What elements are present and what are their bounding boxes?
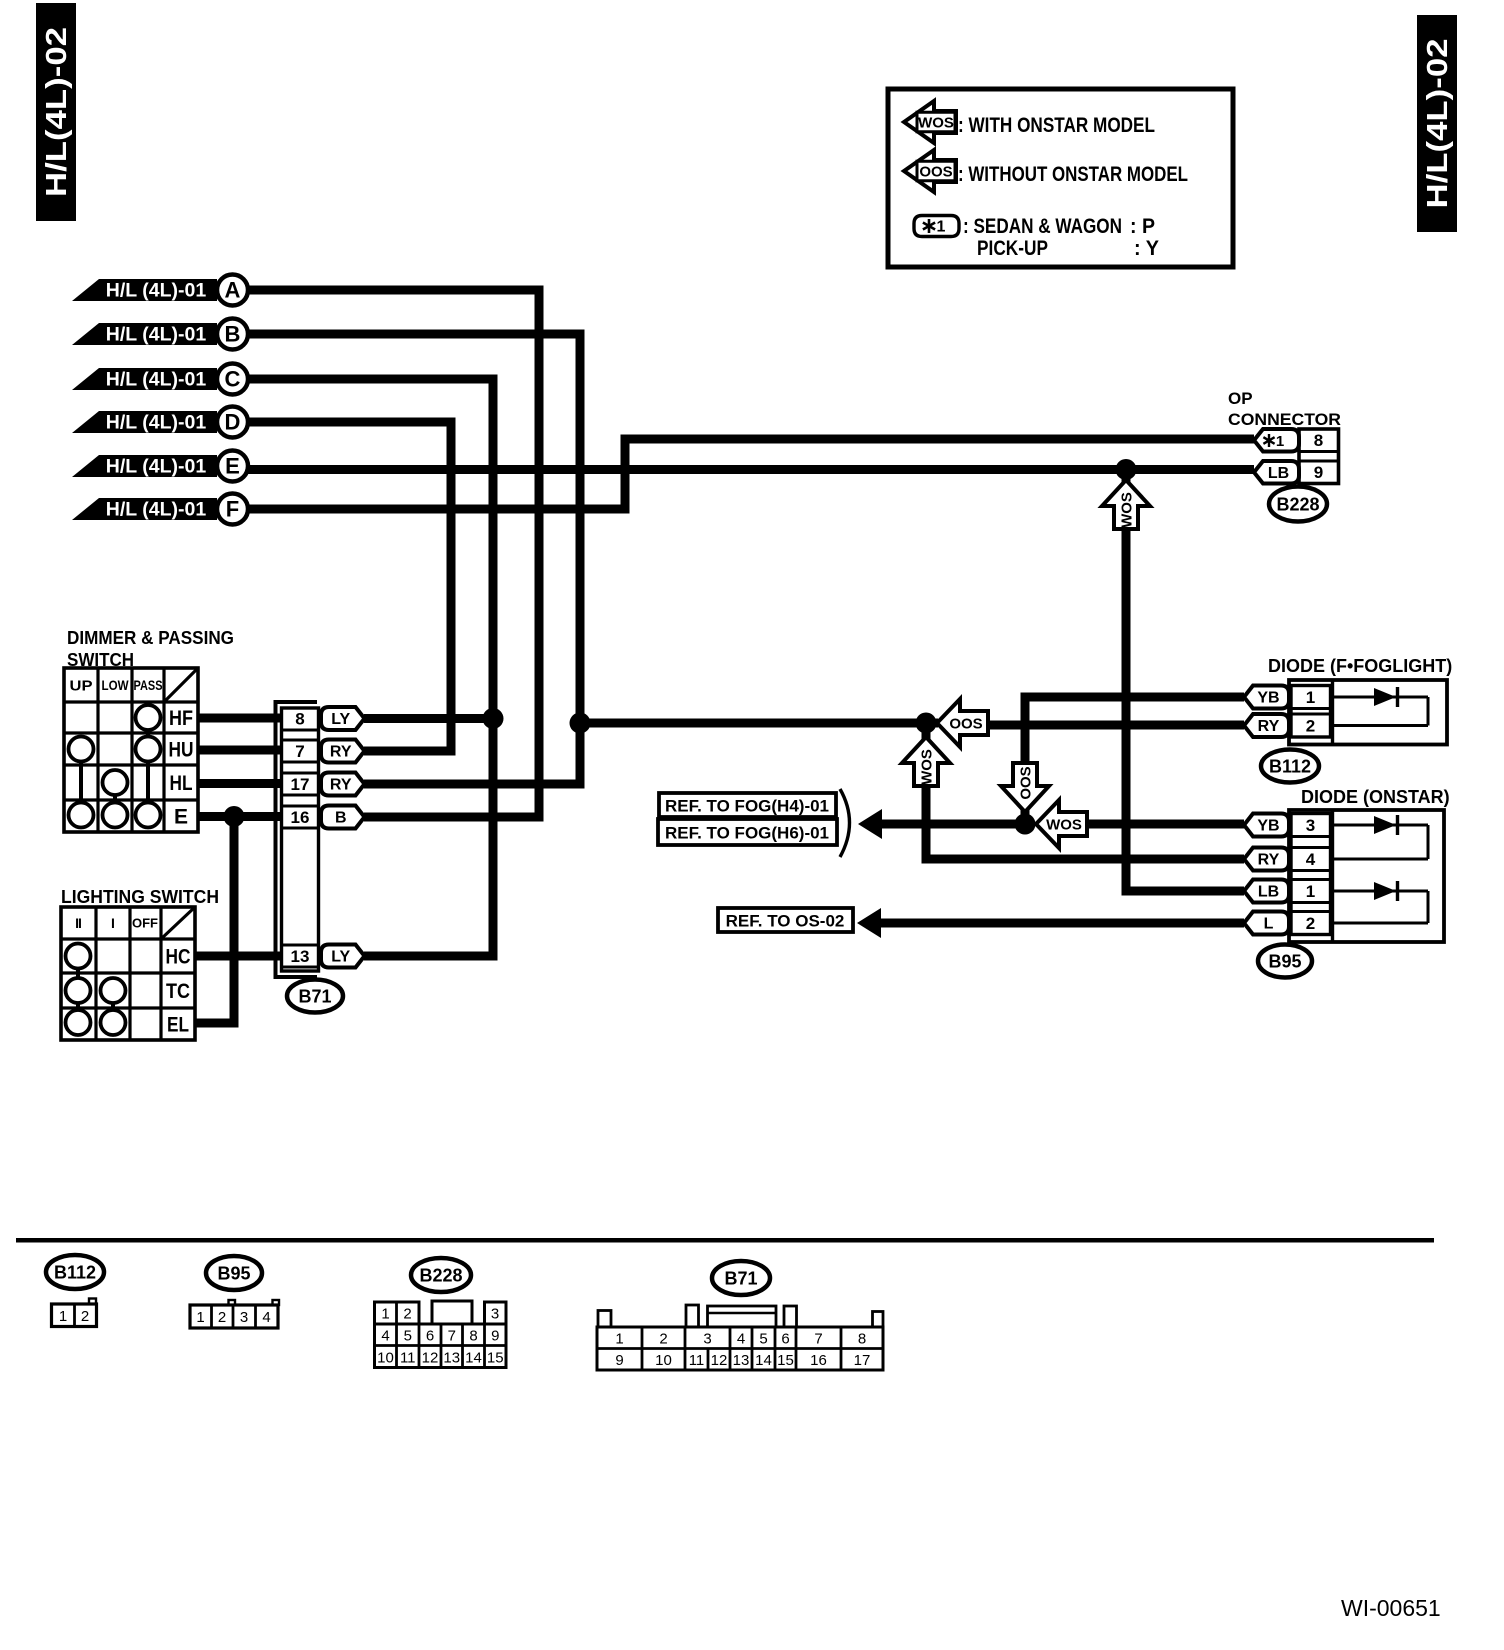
svg-text:10: 10 — [655, 1352, 672, 1369]
wire OP WOS branch to diode LB1 — [1126, 470, 1244, 892]
ref paren — [840, 789, 850, 857]
node E junction — [224, 806, 245, 827]
wire OOS branch to node — [1021, 786, 1030, 824]
svg-text:E: E — [225, 454, 240, 479]
svg-text:EL: EL — [167, 1013, 189, 1036]
svg-text:UP: UP — [70, 677, 93, 694]
svg-text:15: 15 — [487, 1349, 504, 1366]
label OP connector — [1228, 389, 1341, 429]
svg-text:3: 3 — [240, 1309, 248, 1326]
svg-text:DIMMER & PASSING: DIMMER & PASSING — [67, 628, 234, 648]
svg-text:H/L (4L)-01: H/L (4L)-01 — [106, 279, 207, 301]
svg-text:12: 12 — [711, 1352, 728, 1369]
label lighting switch — [61, 887, 219, 907]
wire B to pin17 — [248, 334, 580, 784]
wire node B to OOS splice — [580, 719, 938, 728]
terminal LY pin 13 — [321, 945, 365, 968]
svg-text:9: 9 — [1314, 463, 1323, 482]
diode onstar body — [1289, 810, 1444, 942]
terminal YB onstar — [1244, 814, 1289, 837]
doc number — [1341, 1595, 1441, 1621]
svg-text:2: 2 — [403, 1305, 411, 1322]
node LB junction — [1116, 459, 1137, 480]
svg-text:YB: YB — [1257, 690, 1279, 707]
svg-text:4: 4 — [262, 1309, 270, 1326]
svg-text:: WITHOUT ONSTAR MODEL: : WITHOUT ONSTAR MODEL — [958, 163, 1188, 186]
svg-text:3: 3 — [703, 1330, 711, 1347]
svg-text:B: B — [225, 322, 241, 347]
ref box OS-02 — [718, 908, 853, 932]
svg-text:RY: RY — [1258, 852, 1280, 869]
svg-text:13: 13 — [291, 947, 310, 966]
svg-text:REF. TO FOG(H6)-01: REF. TO FOG(H6)-01 — [665, 823, 829, 842]
svg-text:11: 11 — [400, 1349, 416, 1366]
svg-text:SWITCH: SWITCH — [67, 650, 134, 670]
svg-text:WOS: WOS — [1118, 492, 1135, 528]
svg-text:3: 3 — [1306, 816, 1315, 835]
svg-text:WOS: WOS — [1046, 816, 1082, 833]
wire A to pin16 — [248, 290, 539, 817]
svg-text:2: 2 — [218, 1309, 226, 1326]
terminal *1 pin 8 — [1254, 429, 1299, 452]
svg-text:WOS: WOS — [918, 114, 954, 131]
separator line — [16, 1238, 1434, 1243]
legend arrow OOS — [904, 150, 956, 192]
svg-text:10: 10 — [377, 1349, 394, 1366]
svg-text:B228: B228 — [1276, 494, 1319, 514]
svg-text:B71: B71 — [724, 1268, 757, 1288]
svg-text:CONNECTOR: CONNECTOR — [1228, 410, 1341, 429]
svg-text:E: E — [174, 805, 188, 828]
svg-text:H/L (4L)-01: H/L (4L)-01 — [106, 455, 207, 477]
svg-text:1: 1 — [381, 1305, 389, 1322]
wire HF — [198, 714, 282, 723]
connector flag H/L (4L)-01 F — [72, 494, 248, 525]
svg-text:D: D — [225, 410, 241, 435]
svg-text:WI-00651: WI-00651 — [1341, 1595, 1441, 1621]
svg-text:8: 8 — [295, 709, 304, 728]
svg-text:1: 1 — [196, 1309, 204, 1326]
terminal L onstar — [1244, 912, 1289, 935]
svg-text:11: 11 — [689, 1352, 705, 1369]
pinout label B71 — [712, 1261, 770, 1295]
svg-text:DIODE (ONSTAR): DIODE (ONSTAR) — [1301, 787, 1450, 807]
svg-text:I: I — [111, 915, 115, 931]
svg-text:HL: HL — [170, 772, 193, 795]
terminal LB onstar — [1244, 880, 1289, 903]
svg-text:H/L(4L)-02: H/L(4L)-02 — [41, 27, 73, 197]
svg-text:OOS: OOS — [919, 163, 952, 180]
svg-text:1: 1 — [1276, 433, 1284, 450]
terminal LY pin 8 — [321, 707, 365, 730]
svg-text:6: 6 — [781, 1330, 789, 1347]
connector label B95 — [1258, 945, 1312, 978]
connector flag H/L (4L)-01 C — [72, 364, 248, 395]
svg-text:B71: B71 — [298, 986, 331, 1006]
svg-text:5: 5 — [759, 1330, 767, 1347]
wire diode YB1 branch — [1025, 697, 1244, 766]
svg-text:OFF: OFF — [132, 916, 158, 931]
splice arrow WOS (YB) — [1036, 800, 1087, 848]
legend text sedan wagon — [963, 215, 1155, 238]
node YB splice junction — [1015, 814, 1036, 835]
svg-text:DIODE (F•FOGLIGHT): DIODE (F•FOGLIGHT) — [1268, 656, 1452, 676]
node B/RY junction — [570, 713, 591, 734]
terminal RY pin 7 — [321, 740, 365, 763]
legend box — [888, 89, 1233, 267]
svg-text:YB: YB — [1257, 818, 1279, 835]
svg-text:15: 15 — [777, 1352, 794, 1369]
svg-text:B112: B112 — [1269, 756, 1311, 776]
svg-text:13: 13 — [443, 1349, 460, 1366]
svg-text:RY: RY — [1258, 718, 1280, 735]
label diode onstar — [1301, 787, 1450, 807]
svg-text:H/L (4L)-01: H/L (4L)-01 — [106, 323, 207, 345]
svg-text:HU: HU — [169, 738, 194, 761]
wire E to OP LB — [248, 465, 1254, 474]
node RY splice junction — [916, 713, 937, 734]
svg-text:B95: B95 — [1268, 951, 1301, 971]
svg-text:1: 1 — [1306, 688, 1315, 707]
svg-text:2: 2 — [1306, 716, 1315, 735]
svg-text:LY: LY — [331, 949, 350, 966]
title banner right H/L(4L)-02 — [1417, 15, 1457, 232]
connector B71 pin column — [276, 702, 319, 977]
wire WOS splice to diode RY4 — [926, 723, 1244, 859]
pinout label B112 — [46, 1255, 104, 1289]
svg-text:2: 2 — [1306, 914, 1315, 933]
svg-text:LIGHTING SWITCH: LIGHTING SWITCH — [61, 887, 219, 907]
svg-text:B112: B112 — [54, 1262, 96, 1282]
svg-text:5: 5 — [404, 1327, 412, 1344]
svg-text:OP: OP — [1228, 389, 1253, 408]
pinout label B95 — [206, 1256, 262, 1290]
splice arrow WOS (LB) — [1102, 480, 1150, 529]
svg-text:HC: HC — [166, 945, 191, 968]
pinout connector B71 — [597, 1305, 883, 1370]
splice arrow OOS (YB) — [1001, 763, 1049, 812]
terminal YB pin 1 — [1244, 686, 1289, 709]
legend text without onstar — [958, 163, 1188, 186]
svg-text:B: B — [335, 810, 347, 827]
pinout connector B112 — [52, 1299, 97, 1327]
node LY junction — [483, 708, 504, 729]
svg-text:17: 17 — [291, 775, 310, 794]
svg-text:7: 7 — [814, 1330, 822, 1347]
svg-text:8: 8 — [858, 1330, 866, 1347]
svg-text:H/L (4L)-01: H/L (4L)-01 — [106, 498, 207, 520]
svg-text:HF: HF — [169, 707, 193, 730]
connector label B112 — [1261, 750, 1319, 783]
wire HL — [198, 779, 282, 788]
pinout connector B228 — [375, 1301, 507, 1368]
svg-text:4: 4 — [737, 1330, 745, 1347]
terminal RY onstar — [1244, 848, 1289, 871]
wire HU — [198, 746, 282, 755]
connector label B71 — [287, 980, 343, 1013]
ref arrowhead OS-02 — [857, 908, 881, 938]
wire os-02 to diode L2 — [879, 919, 1244, 928]
svg-text:: WITH ONSTAR MODEL: : WITH ONSTAR MODEL — [958, 114, 1155, 137]
svg-text:14: 14 — [755, 1352, 772, 1369]
ref box FOG(H4)-01 — [659, 793, 836, 817]
wire pin8 LY to node — [364, 714, 493, 723]
wire C to pin13 — [248, 379, 493, 956]
svg-text:1: 1 — [615, 1330, 623, 1347]
svg-text:RY: RY — [330, 777, 352, 794]
svg-text:16: 16 — [810, 1352, 827, 1369]
splice arrow OOS (RY) — [937, 699, 988, 747]
terminal LB pin 9 — [1254, 461, 1299, 484]
svg-text:REF. TO FOG(H4)-01: REF. TO FOG(H4)-01 — [665, 796, 829, 815]
wire D to pin7 — [248, 422, 451, 751]
svg-text:II: II — [75, 915, 81, 931]
legend text pickup — [977, 237, 1159, 260]
svg-text:OOS: OOS — [1017, 766, 1034, 799]
svg-text:14: 14 — [465, 1349, 482, 1366]
svg-text:WOS: WOS — [918, 749, 935, 785]
svg-text:PICK-UP: PICK-UP — [977, 237, 1048, 260]
connector flag H/L (4L)-01 E — [72, 451, 248, 482]
ref arrowhead FOG — [858, 809, 882, 839]
svg-text:3: 3 — [491, 1305, 499, 1322]
wire OOS splice to diode RY2 — [988, 721, 1244, 730]
wire WOS splice to diode YB3 — [1087, 820, 1244, 829]
legend text with onstar — [958, 114, 1155, 137]
svg-text:LOW: LOW — [102, 677, 130, 693]
svg-text:A: A — [225, 278, 241, 303]
svg-text:1: 1 — [1306, 882, 1315, 901]
svg-text:17: 17 — [854, 1352, 871, 1369]
terminal B pin 16 — [321, 806, 365, 829]
connector flag H/L (4L)-01 B — [72, 319, 248, 350]
connector flag H/L (4L)-01 D — [72, 407, 248, 438]
svg-text:REF. TO OS-02: REF. TO OS-02 — [726, 911, 845, 930]
svg-text:8: 8 — [1314, 431, 1323, 450]
svg-text:L: L — [1264, 916, 1274, 933]
svg-text:: SEDAN & WAGON: : SEDAN & WAGON — [963, 215, 1122, 238]
svg-text:F: F — [226, 497, 239, 522]
svg-text:TC: TC — [166, 980, 190, 1003]
terminal RY pin 2 — [1244, 714, 1289, 737]
svg-text:7: 7 — [448, 1327, 456, 1344]
svg-text:PASS: PASS — [134, 677, 163, 693]
terminal RY pin 17 — [321, 773, 365, 796]
svg-text:H/L (4L)-01: H/L (4L)-01 — [106, 411, 207, 433]
pinout connector B95 — [190, 1300, 279, 1328]
pinout label B228 — [411, 1258, 471, 1292]
svg-text:H/L (4L)-01: H/L (4L)-01 — [106, 368, 207, 390]
svg-text:16: 16 — [291, 808, 310, 827]
svg-text:: Y: : Y — [1134, 237, 1159, 260]
svg-text:12: 12 — [422, 1349, 439, 1366]
switch lighting table — [61, 907, 195, 1040]
svg-text:2: 2 — [81, 1308, 89, 1325]
svg-text:2: 2 — [659, 1330, 667, 1347]
svg-text:1: 1 — [937, 219, 946, 236]
svg-text:OOS: OOS — [949, 715, 982, 732]
svg-text:RY: RY — [330, 744, 352, 761]
legend arrow WOS — [904, 101, 956, 143]
svg-text:LY: LY — [331, 711, 350, 728]
label diode f-foglight — [1268, 656, 1452, 676]
diode f-foglight body — [1289, 680, 1447, 745]
svg-text:7: 7 — [295, 742, 304, 761]
wire fog ref line — [880, 820, 1025, 829]
svg-text:B95: B95 — [217, 1263, 250, 1283]
legend symbol *1 — [914, 216, 959, 237]
svg-text:9: 9 — [491, 1327, 499, 1344]
svg-text:4: 4 — [381, 1327, 389, 1344]
svg-text:LB: LB — [1258, 884, 1279, 901]
wire E to EL — [195, 817, 234, 1024]
connector flag H/L (4L)-01 A — [72, 275, 248, 306]
wire E row — [198, 812, 282, 821]
label dimmer switch — [67, 628, 234, 670]
svg-text:B228: B228 — [419, 1265, 462, 1285]
connector OP pin boxes — [1299, 429, 1339, 484]
switch dimmer &amp; passing table — [64, 668, 198, 832]
svg-text:13: 13 — [733, 1352, 750, 1369]
svg-text:: P: : P — [1130, 215, 1155, 238]
svg-text:6: 6 — [426, 1327, 434, 1344]
ref box FOG(H6)-01 — [658, 819, 837, 845]
svg-text:9: 9 — [615, 1352, 623, 1369]
svg-text:4: 4 — [1306, 850, 1316, 869]
splice arrow WOS (RY) — [902, 737, 950, 786]
svg-text:LB: LB — [1268, 465, 1289, 482]
svg-text:1: 1 — [59, 1308, 67, 1325]
svg-text:H/L(4L)-02: H/L(4L)-02 — [1422, 39, 1454, 209]
connector label B228 — [1269, 487, 1327, 522]
wire F to OP *1 — [248, 439, 1254, 509]
svg-text:C: C — [225, 367, 241, 392]
wire HC — [195, 952, 282, 961]
svg-text:8: 8 — [469, 1327, 477, 1344]
title banner left H/L(4L)-02 — [36, 3, 76, 221]
